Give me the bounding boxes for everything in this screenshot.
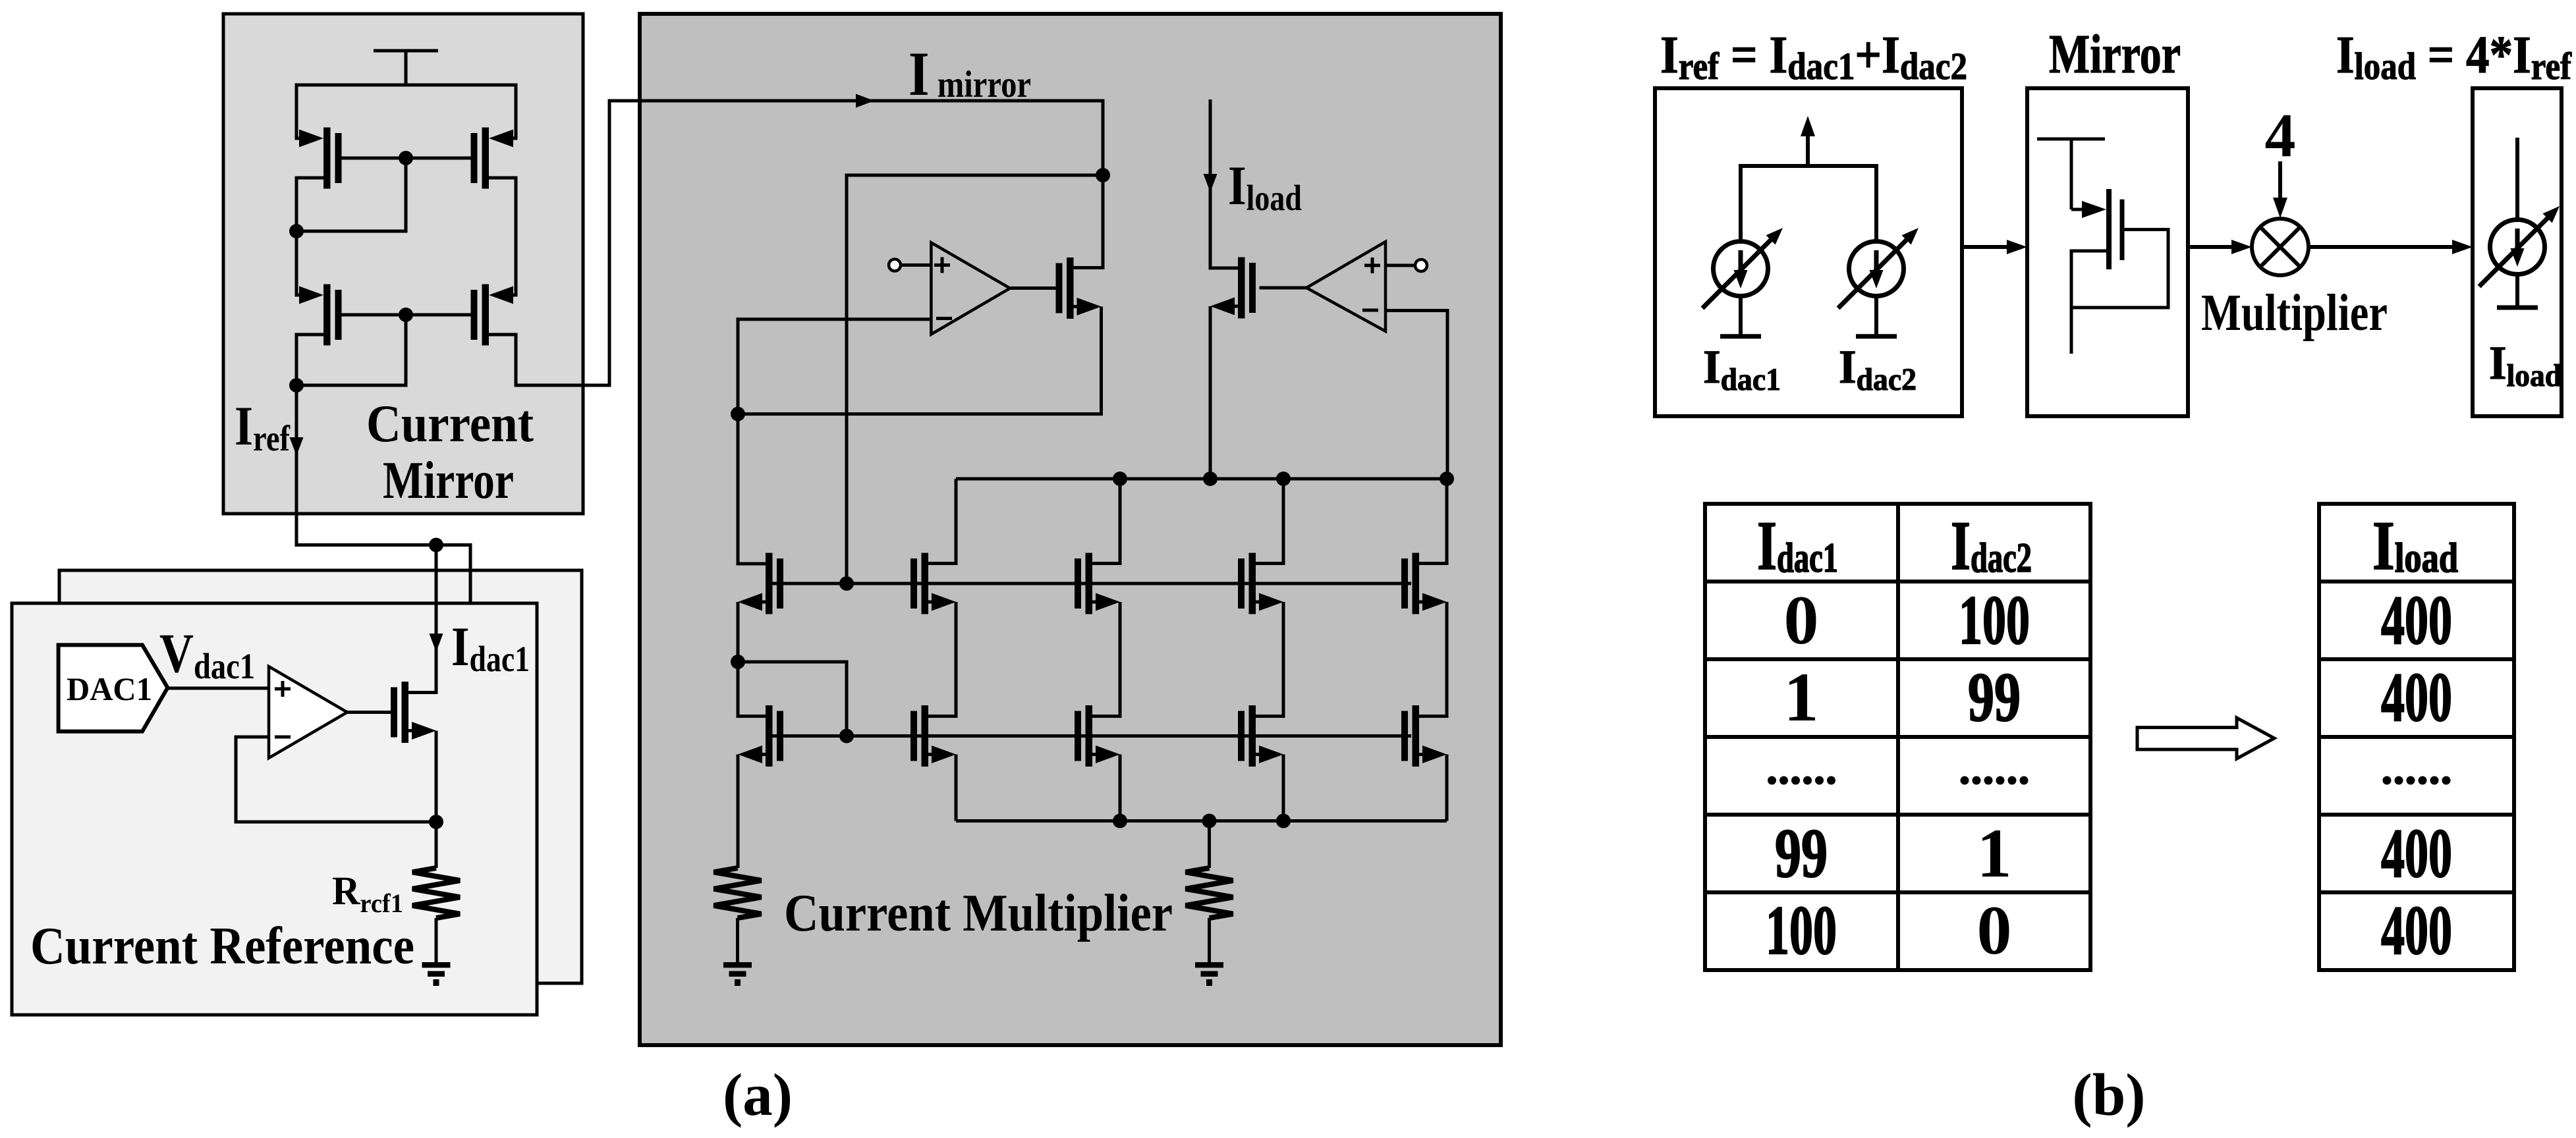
- wire CS2 bottom: [1874, 296, 1878, 337]
- svg-text:400: 400: [2381, 815, 2452, 892]
- wire Iload CS top: [2515, 138, 2519, 220]
- arrowhead Iref: [290, 437, 304, 456]
- wire R1 to ground: [736, 918, 739, 963]
- wire sum tee: [1741, 164, 1876, 242]
- transistor TB2: [910, 705, 956, 767]
- wire CS1 bottom: [1739, 296, 1743, 337]
- transistor QB (mirror): [2106, 189, 2112, 269]
- VDD supply symbol: [374, 51, 438, 85]
- wire TB5 source: [1445, 755, 1449, 821]
- node Idac1 tap: [429, 538, 443, 553]
- wire Iload CS bottom: [2515, 275, 2519, 308]
- wire U2 output to Q1 gate: [347, 711, 391, 714]
- wire TB3 source: [1119, 755, 1122, 821]
- transistor TA1: [738, 553, 783, 614]
- node N2: [731, 407, 745, 421]
- node R1a: [1113, 472, 1127, 486]
- arrowhead Imirror: [856, 94, 874, 108]
- node D3: [289, 378, 304, 393]
- transistor M2: [471, 128, 517, 189]
- terminal bar CS2: [1856, 334, 1897, 339]
- wire TB4 source: [1282, 755, 1285, 821]
- table DAC values: [1705, 504, 2090, 970]
- op-amp U1: [931, 242, 1010, 334]
- wire TA4 source to TB4 drain: [1256, 602, 1283, 717]
- wire R2 to ground: [1208, 918, 1211, 963]
- wire M1 drain: [296, 178, 323, 231]
- transistor M4: [471, 284, 517, 346]
- node B2: [1202, 814, 1217, 828]
- arrowhead sum: [1801, 116, 1815, 136]
- wire TA5 source to TB5 drain: [1419, 602, 1447, 717]
- node R1b: [1203, 472, 1218, 486]
- wire TA4 drain: [1256, 479, 1283, 564]
- transistor TA3: [1075, 553, 1120, 614]
- wire M1 source: [296, 84, 298, 139]
- wire Idac1 into reference: [408, 545, 436, 693]
- svg-text:(b): (b): [2072, 1062, 2145, 1128]
- wire top rail: [956, 477, 1447, 481]
- input circle U3+: [1415, 259, 1427, 271]
- transistor Q1: [391, 682, 436, 743]
- wire TB2 source: [955, 755, 958, 821]
- wire N2 to TA1 drain: [738, 414, 766, 564]
- wire D1 to M3 source: [296, 231, 298, 295]
- svg-text:Current: Current: [366, 395, 534, 453]
- wire TA3 source to TB3 drain: [1092, 602, 1120, 717]
- wire M4 gate to node G2: [406, 313, 471, 317]
- svg-text:Multiplier: Multiplier: [2201, 284, 2388, 342]
- arrowhead Idac1: [430, 634, 443, 652]
- table row 3 dots: [1768, 776, 2029, 785]
- arrowhead Iload: [1204, 174, 1218, 192]
- current reference front box: [12, 603, 537, 1015]
- transistor TA4: [1238, 553, 1283, 614]
- svg-text:Iload: Iload: [2372, 507, 2458, 584]
- table Iload: [2319, 504, 2514, 970]
- svg-text:Iref = Idac1+Idac2: Iref = Idac1+Idac2: [1660, 25, 1967, 88]
- arrowhead into multiplier: [2231, 240, 2252, 254]
- node D1: [289, 224, 304, 238]
- wire M1 gate to node G1: [342, 157, 406, 160]
- wire U1 output to M5 gate: [1010, 286, 1056, 290]
- svg-text:4: 4: [2265, 101, 2296, 170]
- svg-text:DAC1: DAC1: [67, 670, 152, 707]
- wire TA2 source to TB2 drain: [928, 602, 956, 717]
- transistor TB5: [1401, 705, 1447, 767]
- wire TA1 source to node N3: [737, 602, 740, 662]
- wire row A gate rail: [766, 582, 1411, 585]
- node B3: [1276, 814, 1291, 828]
- wire U3+ input: [1386, 264, 1415, 267]
- wire M5 source to node N2: [738, 307, 1102, 414]
- multiplier circle: [2252, 219, 2309, 275]
- wire M3 drain: [296, 335, 323, 385]
- svg-text:Mirror: Mirror: [2049, 24, 2181, 85]
- wire U2 feedback: [236, 737, 436, 822]
- svg-text:Idac1: Idac1: [1757, 507, 1838, 584]
- terminal bar CS1: [1720, 334, 1761, 339]
- wire M2 drain to M4 source: [489, 178, 516, 295]
- wire to shadow reference block: [469, 543, 472, 603]
- svg-text:1: 1: [1784, 659, 1819, 736]
- wire Iref box to Mirror box: [1962, 245, 2011, 249]
- wire M4 drain to Imirror: [489, 101, 1103, 385]
- ground ref: [422, 962, 451, 986]
- node GA: [839, 576, 854, 591]
- transistor TB4: [1238, 705, 1283, 767]
- svg-text:Iload = 4*Iref: Iload = 4*Iref: [2336, 25, 2572, 88]
- wire N3 to TB1 drain: [738, 662, 766, 717]
- wire N1 to row A gates: [847, 175, 1103, 583]
- current source Idac2: [1838, 228, 1918, 308]
- arrowhead 4: [2273, 198, 2287, 218]
- wire N3 to row B gates: [738, 662, 847, 736]
- svg-text:1: 1: [1977, 815, 2012, 892]
- svg-text:0: 0: [1784, 582, 1819, 659]
- wire N1 to M5 drain: [1073, 175, 1103, 268]
- current reference back box: [59, 570, 582, 983]
- wire U3 minus feedback: [1386, 311, 1447, 479]
- block Mirror box: [2027, 88, 2188, 416]
- wire TA3 drain: [1092, 479, 1120, 564]
- ground R2: [1195, 962, 1223, 986]
- node F: [429, 815, 443, 829]
- current source Iload: [2479, 206, 2560, 286]
- wire Iref down to reference: [296, 385, 470, 545]
- wire TB1 source to R1: [737, 755, 740, 869]
- wire QB gate loop: [2071, 230, 2168, 308]
- current mirror block box: [223, 14, 583, 514]
- wire Q1 source to node F: [435, 731, 438, 823]
- block arrow: [2137, 718, 2274, 759]
- arrowhead mirror source: [2082, 201, 2106, 218]
- DAC1 block: [59, 645, 168, 731]
- wire node F to Rrcf1: [435, 822, 438, 868]
- wire multiplier to Iload box: [2309, 245, 2456, 249]
- arrowhead into Iload box: [2452, 240, 2473, 254]
- wire mirror source arrow: [2071, 208, 2083, 211]
- wire diode link M1: [296, 158, 406, 231]
- transistor TB3: [1075, 705, 1120, 767]
- wire Rrcf1 to ground: [435, 918, 438, 963]
- svg-text:400: 400: [2381, 892, 2452, 969]
- wire M6 source to top rail: [1209, 306, 1212, 479]
- wire M6 gate to U3: [1260, 286, 1307, 290]
- svg-text:100: 100: [1766, 892, 1837, 969]
- arrowhead into Mirror: [2007, 240, 2027, 254]
- wire B2 to R2: [1208, 821, 1211, 869]
- wire M3 gate to node G2: [342, 313, 406, 317]
- node N3: [731, 655, 745, 669]
- wire M2 source: [515, 84, 516, 139]
- node B1: [1113, 814, 1127, 828]
- transistor M5: [1056, 257, 1102, 319]
- svg-text:400: 400: [2381, 659, 2452, 736]
- wire Iload input: [1210, 99, 1241, 268]
- wire 4 to multiplier: [2278, 161, 2282, 202]
- wire row B gate rail: [766, 734, 1411, 738]
- transistor TA2: [910, 553, 956, 614]
- wire VDD rail: [296, 84, 516, 87]
- svg-text:99: 99: [1775, 815, 1828, 892]
- wire Mirror to multiplier: [2188, 245, 2235, 249]
- transistor M6: [1210, 257, 1256, 319]
- wire bottom rail: [956, 819, 1447, 823]
- current source Idac1: [1702, 228, 1783, 308]
- wire QB drain: [2071, 251, 2106, 354]
- svg-text:100: 100: [1959, 582, 2030, 659]
- node G2: [399, 308, 413, 322]
- node N1: [1096, 168, 1110, 182]
- svg-text:(a): (a): [723, 1062, 793, 1128]
- wire TA5 drain: [1419, 479, 1447, 564]
- wire U1+ input: [901, 263, 931, 267]
- node G1: [399, 151, 413, 165]
- svg-text:Mirror: Mirror: [383, 452, 514, 510]
- wire TA2 drain: [928, 479, 956, 564]
- svg-text:0: 0: [1977, 892, 2012, 969]
- wire DAC1 to op-amp: [167, 687, 269, 690]
- supply bar in Mirror: [2037, 139, 2105, 209]
- node R1c: [1276, 472, 1291, 486]
- svg-text:99: 99: [1968, 659, 2021, 736]
- current multiplier block box: [640, 14, 1501, 1045]
- op-amp U3: [1306, 242, 1386, 331]
- svg-text:Current Multiplier: Current Multiplier: [784, 884, 1173, 942]
- transistor TB1: [738, 705, 783, 767]
- transistor TA5: [1401, 553, 1447, 614]
- svg-text:Current Reference: Current Reference: [30, 917, 414, 975]
- terminal bar CS3: [2497, 306, 2538, 310]
- svg-text:Idac2: Idac2: [1951, 507, 2032, 584]
- svg-text:400: 400: [2381, 582, 2452, 659]
- wire diode link M3: [296, 315, 406, 385]
- node R1d: [1440, 472, 1454, 486]
- wire M2 gate to node G1: [406, 157, 471, 160]
- block Iload box: [2473, 88, 2562, 416]
- transistor M1: [296, 128, 342, 189]
- block Iref box: [1655, 88, 1962, 416]
- resistor R2: [1186, 868, 1233, 918]
- input circle U1+: [889, 259, 901, 271]
- ground R1: [723, 962, 752, 986]
- node GB: [839, 729, 854, 744]
- resistor Rrcf1: [412, 868, 460, 918]
- transistor M3: [296, 284, 342, 346]
- op-amp U2: [269, 666, 347, 758]
- resistor R1: [714, 868, 762, 918]
- wire sum up arrow: [1806, 135, 1810, 166]
- wire N2 to U1 minus: [738, 319, 931, 414]
